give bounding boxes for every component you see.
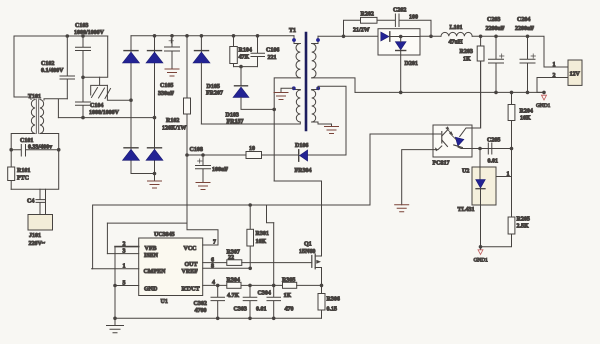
- capacitor C303: [234, 285, 257, 318]
- capacitor C101: [11, 138, 59, 156]
- svg-text:C103: C103: [75, 23, 88, 29]
- svg-text:R204: R204: [520, 109, 533, 115]
- node LED cathode: [478, 147, 482, 151]
- wire opto LED anode: [472, 61, 481, 128]
- node return R204: [510, 91, 514, 95]
- wire top AC rail left: [14, 35, 108, 37]
- node drain D103 junction: [272, 108, 276, 112]
- svg-text:0.15: 0.15: [327, 307, 338, 313]
- svg-text:2200uF: 2200uF: [486, 26, 505, 32]
- wire C103 bottom to AC1 drop: [83, 36, 108, 77]
- pin 1 CMPEN: [92, 264, 139, 270]
- svg-text:C104: C104: [90, 103, 103, 109]
- svg-text:7: 7: [213, 240, 216, 246]
- svg-text:0.33/400v: 0.33/400v: [28, 145, 52, 151]
- transformer T1 core: [305, 33, 308, 130]
- node return C203: [494, 91, 498, 95]
- node R204 C205: [510, 147, 514, 151]
- node pin5 junction: [113, 284, 117, 288]
- resistor R305: [282, 278, 322, 300]
- wire VCC supply jog: [107, 155, 218, 245]
- transformer T1 aux winding: [294, 90, 301, 123]
- svg-text:C304: C304: [258, 291, 271, 297]
- ground T1 aux top: [274, 88, 294, 99]
- svg-text:PC817: PC817: [433, 161, 450, 167]
- diode D103 FR157: [226, 67, 275, 125]
- diode bridge D4: [146, 148, 163, 161]
- svg-text:Q1: Q1: [304, 242, 312, 248]
- connector J101 220V: [28, 215, 53, 248]
- ground earth main: [107, 318, 124, 333]
- resistor R104: [230, 36, 252, 67]
- node rail C106: [256, 34, 260, 38]
- node snubber right: [429, 35, 433, 39]
- wire T1 secondary bottom return: [312, 78, 355, 93]
- svg-text:C102: C102: [41, 61, 54, 67]
- op-amp U1 UC3845 box: [139, 232, 203, 305]
- svg-text:R306: R306: [327, 297, 340, 303]
- ground bridge negative: [148, 174, 162, 189]
- node bridge bottom: [153, 172, 157, 176]
- svg-text:D106: D106: [295, 143, 308, 149]
- capacitor C103: [74, 23, 105, 77]
- svg-text:8: 8: [211, 264, 214, 270]
- svg-text:C101: C101: [20, 138, 33, 144]
- resistor R306: [318, 294, 340, 319]
- resistor R205: [481, 149, 530, 247]
- ground T1 sense bottom: [312, 122, 339, 134]
- transformer T1 sense winding: [312, 90, 319, 123]
- node rail left: [113, 317, 117, 321]
- pin 3 ISEN: [107, 249, 138, 255]
- svg-text:221: 221: [268, 55, 277, 61]
- svg-text:330uF: 330uF: [158, 91, 174, 97]
- wire primary ground rail: [115, 317, 322, 319]
- wire T1 primary bottom to drain: [274, 78, 300, 181]
- wire ISEN drop: [106, 223, 108, 254]
- wire drain to Q1: [274, 181, 321, 256]
- svg-text:47K: 47K: [239, 55, 250, 61]
- pin 6 OUT: [203, 258, 227, 264]
- optocoupler PC817: [433, 125, 473, 167]
- node C303 top: [248, 284, 252, 288]
- node R102 bottom: [185, 153, 189, 157]
- diode D106 FR304: [295, 143, 312, 174]
- svg-text:3: 3: [123, 249, 126, 255]
- svg-text:1: 1: [123, 264, 126, 270]
- wire D201 to L101: [420, 35, 441, 37]
- resistor R102: [162, 36, 191, 155]
- svg-text:1: 1: [553, 62, 556, 68]
- svg-text:1: 1: [507, 172, 510, 178]
- svg-text:D103: D103: [226, 113, 239, 119]
- svg-text:U2: U2: [462, 169, 469, 175]
- svg-text:C302: C302: [194, 301, 207, 307]
- svg-text:R305: R305: [282, 278, 295, 284]
- svg-text:L101: L101: [450, 25, 463, 31]
- svg-text:0.01: 0.01: [488, 159, 499, 165]
- node clamp D103 top: [239, 65, 243, 69]
- diode bridge D2: [146, 51, 163, 63]
- resistor R101 PTC: [8, 150, 31, 190]
- svg-text:0.01: 0.01: [256, 307, 267, 313]
- wire 12V rail: [472, 36, 544, 67]
- node C104 bottom: [81, 116, 85, 120]
- wire bridge right column: [154, 36, 156, 174]
- diode D105 FR207: [193, 36, 223, 124]
- svg-text:R202: R202: [361, 12, 374, 18]
- varistor RV: [91, 77, 111, 98]
- svg-text:RT/CT: RT/CT: [182, 287, 200, 293]
- svg-text:C105: C105: [160, 83, 173, 89]
- pin 7 VCC: [203, 240, 218, 246]
- wire opto LED cathode row: [472, 148, 512, 150]
- diode D201 dual box: [378, 29, 420, 93]
- svg-text:FR207: FR207: [206, 91, 223, 97]
- node rail C304: [272, 317, 276, 321]
- node snubber left: [342, 35, 346, 39]
- wire C102 bottom to T101 and AC2: [44, 99, 67, 118]
- svg-text:470: 470: [285, 307, 294, 313]
- svg-text:C108: C108: [190, 147, 203, 153]
- node R301 top: [248, 203, 252, 207]
- svg-text:GND1: GND1: [536, 103, 551, 109]
- svg-text:220V~: 220V~: [29, 241, 46, 247]
- capacitor C205: [487, 138, 500, 165]
- svg-text:10K: 10K: [256, 239, 267, 245]
- resistor R304: [227, 278, 251, 300]
- ground C105: [165, 69, 179, 76]
- node return GND1: [542, 91, 546, 95]
- svg-text:UC3845: UC3845: [154, 232, 175, 238]
- svg-text:TL431: TL431: [458, 207, 475, 213]
- transistor Q1 15N60: [299, 242, 322, 271]
- svg-text:CMPEN: CMPEN: [144, 269, 167, 275]
- transformer T1 secondary winding: [312, 36, 318, 78]
- svg-text:47uH: 47uH: [449, 40, 463, 46]
- svg-text:4700: 4700: [195, 308, 207, 314]
- pin 8 VREF: [203, 264, 251, 270]
- resistor R10: [246, 146, 299, 159]
- svg-text:4.7K: 4.7K: [227, 293, 240, 299]
- svg-text:0.1/400V: 0.1/400V: [41, 68, 64, 74]
- pin 1 ref label: [507, 172, 512, 178]
- wire output return rail: [355, 91, 544, 93]
- wire secondary top rail: [318, 35, 378, 37]
- svg-text:21/2W: 21/2W: [353, 28, 370, 34]
- svg-text:VFB: VFB: [145, 246, 157, 252]
- svg-text:R203: R203: [460, 49, 473, 55]
- transformer T101 common mode choke: [28, 94, 44, 134]
- capacitor C104: [76, 77, 120, 117]
- svg-text:2: 2: [123, 242, 126, 248]
- ground GND1 top: [536, 95, 551, 109]
- wire opto collector to VFB line: [370, 134, 433, 205]
- node pin4 C302: [216, 284, 220, 288]
- node rail C302: [216, 317, 220, 321]
- node return D201: [399, 91, 403, 95]
- svg-text:R104: R104: [239, 48, 252, 54]
- svg-text:R304: R304: [227, 278, 240, 284]
- capacitor C202: [377, 8, 431, 37]
- svg-text:R101: R101: [17, 168, 30, 174]
- node TL431 anode: [479, 245, 483, 249]
- wire VFB to ground: [114, 247, 116, 319]
- svg-text:GND: GND: [144, 287, 158, 293]
- node C101 right: [57, 148, 61, 152]
- pin 5 GND: [115, 281, 139, 287]
- node D201 anode: [399, 35, 403, 39]
- node rail C204: [526, 35, 530, 39]
- svg-text:2200uF: 2200uF: [515, 26, 534, 32]
- node Q1 source sense: [320, 284, 324, 288]
- node AC rail C102 top: [66, 34, 70, 38]
- svg-text:C202: C202: [393, 8, 406, 14]
- inductor L101: [441, 25, 472, 46]
- resistor R202: [344, 12, 378, 37]
- svg-text:R102: R102: [166, 118, 179, 124]
- svg-text:4: 4: [212, 280, 215, 286]
- svg-text:VREF: VREF: [182, 269, 199, 275]
- node T1 aux dot: [292, 86, 296, 90]
- capacitor C105: [158, 36, 180, 97]
- wire AC2 line: [58, 117, 154, 119]
- node rail R203: [479, 35, 483, 39]
- svg-text:GND1: GND1: [474, 258, 489, 264]
- diode bridge D3: [123, 148, 140, 161]
- wire J101 pin2: [45, 189, 47, 214]
- node rail C105: [170, 34, 174, 38]
- capacitor C102: [41, 36, 75, 99]
- wire VCC node: [187, 154, 246, 156]
- svg-text:C303: C303: [234, 307, 247, 313]
- svg-text:100: 100: [409, 15, 418, 21]
- svg-text:10: 10: [249, 146, 255, 152]
- node C103 bottom: [81, 76, 85, 80]
- capacitor C106: [251, 36, 279, 67]
- capacitor C304: [256, 205, 294, 318]
- wire T101 bottom leads: [11, 134, 59, 150]
- svg-text:R205: R205: [517, 217, 530, 223]
- capacitor C4: [27, 189, 45, 214]
- svg-text:OUT: OUT: [185, 262, 198, 268]
- svg-text:PTC: PTC: [17, 176, 29, 182]
- node bridge AC1: [129, 98, 133, 102]
- svg-text:FR304: FR304: [295, 168, 312, 174]
- connector 12V output: [537, 60, 582, 92]
- svg-text:R301: R301: [256, 231, 269, 237]
- svg-text:D201: D201: [405, 61, 418, 67]
- svg-text:1000/1000V: 1000/1000V: [89, 110, 120, 116]
- svg-text:D105: D105: [207, 84, 220, 90]
- node C108 top: [201, 153, 205, 157]
- wire left input drop to T101: [14, 36, 31, 100]
- wire opto emitter to ground: [402, 150, 433, 205]
- wire clamp join: [234, 66, 258, 68]
- wire Q1 source: [321, 268, 323, 294]
- diode bridge D1: [123, 51, 140, 63]
- node C101 left: [9, 148, 13, 152]
- svg-text:C203: C203: [487, 17, 500, 23]
- node rail D105: [200, 34, 204, 38]
- svg-text:22: 22: [228, 255, 234, 261]
- node AC rail C103 top: [81, 34, 85, 38]
- svg-text:ISEN: ISEN: [144, 253, 159, 259]
- capacitor C204: [515, 17, 536, 92]
- node rail C203: [494, 35, 498, 39]
- svg-text:T1: T1: [289, 28, 296, 34]
- node T1 sense dot: [316, 86, 320, 90]
- node rail R104: [232, 34, 236, 38]
- pin 2 VFB: [115, 242, 139, 248]
- svg-text:C204: C204: [517, 17, 530, 23]
- resistor R203: [460, 36, 485, 128]
- transformer T1 primary winding: [294, 36, 300, 78]
- svg-text:U1: U1: [161, 299, 168, 305]
- svg-text:J101: J101: [29, 233, 41, 239]
- node C304 pin4 row: [272, 284, 276, 288]
- capacitor C203: [486, 17, 505, 92]
- wire bridge left column: [131, 36, 155, 174]
- wire varistor to bridge AC1: [107, 85, 131, 100]
- ground GND1 bottom: [474, 247, 489, 264]
- svg-text:10K: 10K: [520, 116, 531, 122]
- node rail R102: [185, 34, 189, 38]
- node T1 primary dot: [292, 38, 296, 42]
- wire T1 aux bottom clamp: [201, 122, 300, 124]
- svg-text:5: 5: [123, 281, 126, 287]
- svg-text:1K: 1K: [284, 293, 292, 299]
- resistor R204: [508, 92, 533, 148]
- ground C108: [196, 183, 210, 190]
- capacitor C302: [194, 285, 225, 318]
- wire TL431 ref: [496, 176, 512, 178]
- svg-text:12V: 12V: [570, 72, 581, 78]
- svg-text:15N60: 15N60: [299, 249, 315, 255]
- wire T1 sense top to D106: [308, 86, 346, 155]
- wire CMPEN loop: [93, 205, 370, 269]
- node bridge AC2: [153, 116, 157, 120]
- node rail C303: [248, 317, 252, 321]
- node VREF R301: [248, 267, 252, 271]
- ground opto emitter: [395, 205, 409, 212]
- svg-text:1K: 1K: [463, 57, 471, 63]
- resistor R301: [247, 205, 269, 268]
- svg-text:2: 2: [553, 73, 556, 79]
- svg-text:VCC: VCC: [184, 246, 197, 252]
- svg-text:2.5K: 2.5K: [517, 224, 530, 230]
- node return C204: [526, 91, 530, 95]
- node rail bridge right top: [153, 34, 157, 38]
- svg-text:120K/1W: 120K/1W: [162, 126, 186, 132]
- node T1 secondary dot: [316, 38, 320, 42]
- svg-text:100uF: 100uF: [212, 167, 228, 173]
- svg-text:C205: C205: [487, 138, 500, 144]
- svg-text:C106: C106: [266, 48, 279, 54]
- svg-text:1000/1000V: 1000/1000V: [74, 30, 105, 36]
- capacitor C108: [190, 147, 229, 183]
- svg-text:C4: C4: [27, 199, 34, 205]
- wire J101 top: [11, 150, 59, 190]
- pin 4 RTCT: [203, 280, 227, 286]
- regulator U2 TL431: [458, 149, 497, 247]
- wire RTCT row: [250, 284, 283, 286]
- wire DC+ rail: [131, 35, 294, 37]
- resistor R307: [227, 250, 312, 266]
